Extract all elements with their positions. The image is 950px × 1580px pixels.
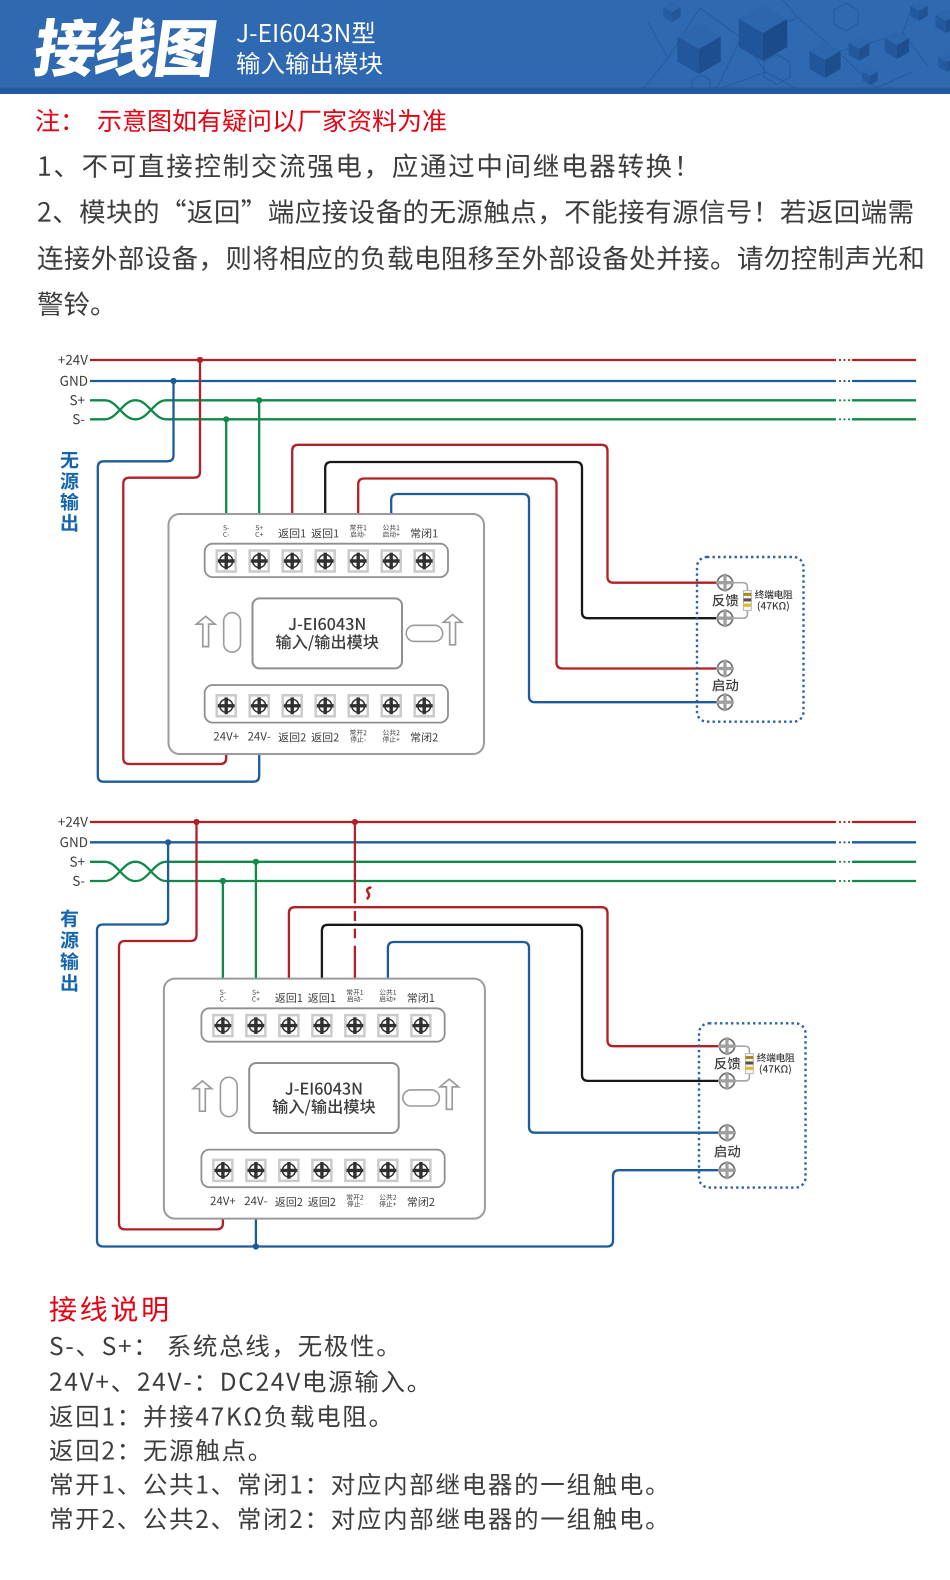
junction 24V- rail 2 bbox=[253, 1243, 259, 1249]
external screw 2 B bbox=[720, 1073, 735, 1088]
external screw 4 B bbox=[720, 1163, 735, 1178]
right arrow symbol B bbox=[440, 1079, 459, 1109]
right capsule B bbox=[403, 1090, 440, 1106]
terminal labels bottom A bbox=[214, 732, 239, 741]
resistor lead wires B bbox=[735, 1046, 749, 1081]
resistor value label B bbox=[757, 1053, 794, 1062]
terminal screw bottom 2 A bbox=[250, 695, 269, 716]
wire +24V direct to 常开1 (red, with crossing gaps) 2 bbox=[354, 822, 356, 980]
terminal labels top B bbox=[220, 990, 226, 995]
section title 接线说明 bbox=[50, 1296, 167, 1322]
terminal labels top A bbox=[223, 525, 229, 530]
external screw 2 A bbox=[718, 611, 733, 626]
bus +24V bbox=[90, 821, 916, 823]
bottom terminal strip B bbox=[201, 1150, 444, 1188]
wire 返回1 to 反馈 top (red hook) 2 bbox=[289, 907, 720, 1046]
wire 公共1 to 启动 bottom (blue hook) bbox=[391, 494, 717, 702]
terminal screw bottom 1 B bbox=[213, 1160, 232, 1181]
terminal screw top 6 B bbox=[378, 1015, 397, 1036]
wire S+ to S+C+ (green) bbox=[258, 400, 260, 515]
wire +24V to 24V+ (red, left loop) bbox=[123, 360, 226, 764]
legend line 6 bbox=[51, 1507, 653, 1530]
note paragraph 1 bbox=[39, 153, 682, 178]
external screw 3 B bbox=[720, 1125, 735, 1140]
wire 返回1 to 反馈 top (red hook) bbox=[292, 445, 717, 583]
terminal screw bottom 1 A bbox=[217, 695, 236, 716]
wire S- to S-C- (green) 2 bbox=[222, 881, 224, 980]
terminal screw top 2 B bbox=[246, 1015, 265, 1036]
wire 返回1 to 反馈 bottom (black hook) bbox=[325, 462, 717, 618]
junction GND 2 bbox=[165, 839, 171, 845]
wire 常开1 to 启动 top (red hook) bbox=[358, 479, 717, 669]
bus S+ bbox=[90, 400, 916, 419]
left arrow symbol A bbox=[196, 616, 215, 646]
bus +24V bbox=[90, 359, 916, 361]
bottom terminal strip A bbox=[205, 685, 448, 723]
wire 返回1 to 反馈 bottom (black hook) 2 bbox=[322, 925, 720, 1081]
terminal screw top 5 B bbox=[345, 1015, 364, 1036]
legend line 2 bbox=[50, 1370, 415, 1393]
terminal labels bottom B bbox=[210, 1197, 235, 1206]
junction S- 2 bbox=[220, 878, 226, 884]
terminal screw bottom 7 A bbox=[415, 695, 434, 716]
label 启动 A bbox=[712, 679, 738, 692]
wire GND to 24V- (blue, left loop) bbox=[98, 381, 259, 782]
terminal screw bottom 6 A bbox=[382, 695, 401, 716]
resistor lead wires A bbox=[733, 583, 747, 619]
wire 公共1 to 启动 top (blue hook) 2 bbox=[388, 942, 720, 1133]
terminal screw bottom 5 B bbox=[345, 1160, 364, 1181]
junction S+ 2 bbox=[253, 859, 259, 865]
wire S- to S-C- (green) bbox=[225, 419, 227, 515]
terminal screw bottom 3 B bbox=[279, 1160, 298, 1181]
terminal screw top 7 B bbox=[411, 1015, 430, 1036]
terminal screw top 1 A bbox=[217, 551, 236, 572]
header title bbox=[32, 18, 217, 77]
break symbol on red wire bbox=[367, 888, 370, 899]
terminal screw bottom 4 B bbox=[312, 1160, 331, 1181]
junction +24V 2 bbox=[193, 819, 199, 825]
header banner bbox=[0, 0, 950, 94]
label 无源输出 bbox=[61, 452, 79, 469]
header subtitle line 1 bbox=[237, 22, 375, 44]
junction +24V mid 2 bbox=[352, 819, 358, 825]
I/O module J-EI6043N box A bbox=[169, 514, 485, 754]
terminal screw top 6 A bbox=[382, 551, 401, 572]
top terminal strip B bbox=[201, 1008, 444, 1041]
label 有源输出 bbox=[60, 909, 78, 927]
terminal screw bottom 7 B bbox=[411, 1160, 430, 1181]
bus GND bbox=[90, 380, 916, 382]
external screw 4 A bbox=[718, 695, 733, 710]
right arrow symbol A bbox=[443, 615, 462, 645]
external screw 1 B bbox=[720, 1039, 735, 1054]
note paragraph 2 bbox=[38, 199, 912, 224]
module name plate A bbox=[253, 598, 403, 668]
external screw 3 A bbox=[718, 661, 733, 676]
external device dashed box B bbox=[699, 1023, 806, 1187]
junction +24V bbox=[197, 357, 203, 363]
terminal resistor 47K B bbox=[746, 1054, 754, 1074]
module name plate B bbox=[249, 1063, 399, 1133]
junction S- bbox=[223, 416, 229, 422]
terminal screw bottom 3 A bbox=[283, 695, 302, 716]
terminal screw bottom 2 B bbox=[246, 1160, 265, 1181]
wire GND down-left (blue) 2 bbox=[97, 842, 720, 1246]
terminal screw top 4 B bbox=[312, 1015, 331, 1036]
top terminal strip A bbox=[205, 544, 448, 577]
label 反馈 B bbox=[714, 1057, 740, 1070]
I/O module J-EI6043N box B bbox=[164, 979, 485, 1219]
wire 24V- stub to GND rail (blue) 2 bbox=[255, 1218, 257, 1247]
wire S+ to S+C+ (green) 2 bbox=[255, 862, 257, 980]
legend line 5 bbox=[51, 1473, 653, 1496]
terminal screw top 5 A bbox=[349, 551, 368, 572]
legend line 1 bbox=[50, 1334, 385, 1357]
terminal screw top 2 A bbox=[250, 551, 269, 572]
terminal screw bottom 5 A bbox=[349, 695, 368, 716]
header subtitle line 2 bbox=[237, 52, 382, 75]
external screw 1 A bbox=[718, 575, 733, 590]
legend line 4 bbox=[50, 1439, 256, 1462]
terminal screw bottom 4 A bbox=[316, 695, 335, 716]
external device dashed box A bbox=[697, 557, 804, 722]
terminal screw bottom 6 B bbox=[378, 1160, 397, 1181]
junction GND bbox=[170, 378, 176, 384]
bus S+ 2 bbox=[90, 862, 916, 881]
terminal screw top 7 A bbox=[415, 551, 434, 572]
terminal resistor 47K A bbox=[744, 591, 752, 611]
label 启动 B bbox=[714, 1145, 740, 1158]
junction S+ bbox=[256, 397, 262, 403]
terminal screw top 1 B bbox=[213, 1015, 232, 1036]
bus S- 2 bbox=[90, 862, 916, 881]
terminal screw top 3 B bbox=[279, 1015, 298, 1036]
label 反馈 A bbox=[712, 594, 738, 607]
bus GND bbox=[90, 841, 916, 843]
bus S- bbox=[90, 400, 916, 419]
left capsule B bbox=[220, 1077, 237, 1116]
wire +24V to 24V+ (red, left loop) 2 bbox=[119, 822, 223, 1229]
note line red bbox=[36, 109, 68, 132]
left arrow symbol B bbox=[193, 1081, 212, 1111]
legend line 3 bbox=[50, 1405, 377, 1428]
terminal screw top 4 A bbox=[316, 551, 335, 572]
left capsule A bbox=[224, 613, 241, 652]
terminal screw top 3 A bbox=[283, 551, 302, 572]
right capsule A bbox=[406, 625, 443, 641]
resistor value label A bbox=[755, 590, 792, 599]
